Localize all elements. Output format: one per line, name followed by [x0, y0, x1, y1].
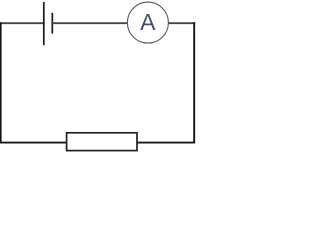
wire: bottom-left horizontal (left corner to resistor) [0, 142, 67, 144]
battery cell B1: long plate (+) [43, 2, 45, 45]
wire: top-left horizontal (left corner to battery +) [0, 22, 44, 24]
resistor R1: box [67, 133, 137, 151]
wire: ammeter to top-right corner [168, 22, 195, 24]
svg-text:A: A [140, 9, 156, 35]
wire: left vertical [0, 22, 2, 143]
ammeter A1: circle body [127, 2, 168, 43]
battery cell B1: short plate (-) [51, 13, 53, 34]
wire: battery to ammeter [52, 22, 127, 24]
wire: bottom-right horizontal (resistor to right corner) [137, 142, 195, 144]
wire: right vertical [193, 22, 195, 143]
